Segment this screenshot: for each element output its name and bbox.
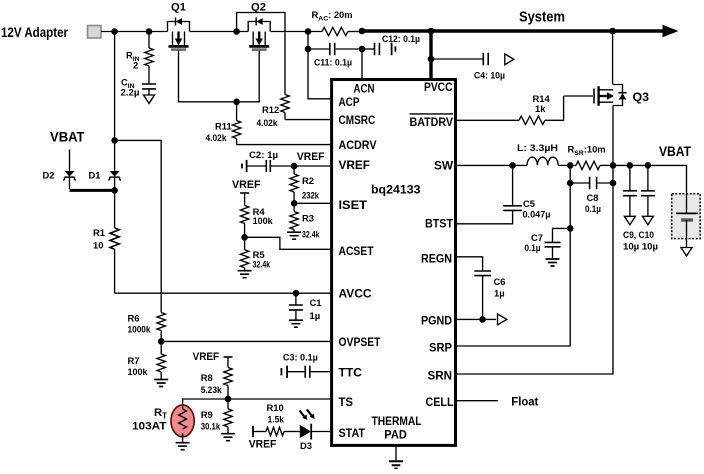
junction dot (293, 290, 300, 297)
junction dot (291, 200, 298, 207)
svg-text:THERMAL: THERMAL (372, 414, 422, 428)
resistor R11 (206, 102, 241, 145)
wire ACP pin (308, 49, 332, 99)
junction dot (627, 162, 634, 169)
svg-text:R11: R11 (215, 121, 232, 132)
svg-text:ACN: ACN (354, 82, 375, 96)
svg-text:C8: C8 (587, 192, 599, 203)
svg-text:CELL: CELL (426, 395, 454, 409)
wire C11 branch down (307, 32, 309, 50)
inductor L (517, 142, 576, 165)
diode D1 (89, 140, 122, 189)
junction dot (479, 316, 486, 323)
svg-text:OVPSET: OVPSET (339, 335, 381, 349)
svg-text:10µ 10µ: 10µ 10µ (623, 240, 658, 251)
node VREF terminal above R4 (232, 179, 261, 193)
ground under R9 (221, 434, 235, 441)
svg-text:2.2µ: 2.2µ (121, 87, 140, 98)
junction dot (305, 28, 312, 35)
svg-text:C2: 1µ: C2: 1µ (249, 149, 278, 160)
svg-text:L: 3.3µH: L: 3.3µH (517, 142, 558, 153)
node System off-page triangle (505, 54, 514, 65)
svg-text:C12: 0.1µ: C12: 0.1µ (382, 33, 420, 44)
svg-text:1µ: 1µ (494, 288, 505, 299)
ground open-triangle under C10 (642, 216, 653, 225)
svg-text:VREF: VREF (297, 151, 325, 163)
svg-text:R8: R8 (201, 372, 213, 383)
svg-text:Q3: Q3 (633, 90, 650, 104)
wire sense node down to SRP (457, 165, 570, 346)
svg-text:SRN: SRN (428, 369, 453, 383)
svg-text:0.1µ: 0.1µ (525, 242, 541, 253)
junction dot (233, 99, 240, 106)
resistor R1 (93, 190, 119, 293)
junction dot (609, 28, 616, 35)
wire PGND pin (457, 318, 496, 320)
wire AVCC rail (115, 292, 332, 294)
svg-text:Q2: Q2 (251, 2, 266, 14)
diode D2 (43, 170, 76, 190)
svg-text:C3: 0.1µ: C3: 0.1µ (283, 351, 318, 362)
wire Q1 gate to Q2 gate (179, 51, 260, 102)
wire battery node down to SRN (457, 165, 613, 374)
ground under R5 (238, 271, 252, 278)
wire ACSET path (245, 237, 332, 249)
resistor R9 (201, 399, 233, 433)
battery pack (672, 194, 700, 248)
resistor R14 (457, 93, 564, 125)
junction dot (509, 162, 516, 169)
svg-text:R10: R10 (267, 402, 284, 413)
svg-text:R3: R3 (302, 213, 314, 224)
capacitor C1 (289, 293, 322, 321)
wire VBAT node to R6 branch (115, 140, 162, 312)
junction dot (305, 46, 312, 53)
svg-text:SRP: SRP (429, 341, 452, 355)
svg-text:C11: 0.1µ: C11: 0.1µ (314, 57, 352, 68)
ground under RT (176, 443, 190, 450)
svg-text:5.23k: 5.23k (201, 384, 223, 395)
svg-text:D1: D1 (89, 170, 101, 181)
junction dot (111, 137, 118, 144)
svg-text:4.02k: 4.02k (257, 117, 279, 128)
resistor R10 (249, 402, 300, 450)
resistor RIN (126, 32, 153, 84)
wire adapter node down to VBAT node (114, 32, 116, 141)
wire ISET pin (294, 202, 332, 204)
svg-text:12V Adapter: 12V Adapter (1, 25, 68, 41)
capacitor CIN (121, 77, 157, 98)
ground under C1 (289, 320, 303, 327)
junction dot (111, 28, 118, 35)
svg-text:VREF: VREF (339, 158, 371, 172)
wire VREF pin (294, 165, 332, 167)
svg-text:R2: R2 (302, 175, 314, 186)
junction dot (567, 162, 574, 169)
resistor R4 (240, 193, 273, 237)
resistor R2 (290, 166, 320, 203)
junction dot (359, 28, 366, 35)
svg-text:PAD: PAD (384, 428, 407, 442)
ground open-triangle under C9 (624, 216, 635, 225)
svg-text:32.4k: 32.4k (302, 228, 320, 239)
ground open-triangle under CIN (144, 95, 155, 104)
svg-text:VREF: VREF (193, 351, 220, 363)
svg-text:R7: R7 (128, 355, 140, 366)
svg-text:VREF: VREF (232, 179, 261, 191)
svg-text:VBAT: VBAT (50, 130, 85, 146)
wire R12 to CMSRC pin (285, 119, 332, 121)
svg-text:REGN: REGN (421, 251, 452, 265)
resistor R3 (290, 203, 320, 239)
svg-text:1µ: 1µ (310, 310, 321, 321)
wire TS to thermistor (183, 399, 228, 405)
junction dot (233, 28, 240, 35)
terminal input pad (88, 26, 102, 39)
node System arrowhead (663, 25, 679, 37)
svg-text:0.1µ: 0.1µ (585, 203, 601, 214)
svg-text:ACDRV: ACDRV (339, 138, 378, 152)
ground under C7 (546, 259, 560, 266)
wire thick diode bus (70, 189, 117, 192)
ground open-triangle under battery (681, 248, 692, 257)
svg-text:C1: C1 (310, 297, 322, 308)
label THERMAL PAD (372, 414, 422, 441)
junction dot (645, 162, 652, 169)
svg-text:TTC: TTC (339, 366, 363, 380)
svg-text:103AT: 103AT (132, 420, 167, 432)
svg-text:R12: R12 (262, 104, 279, 115)
svg-text:BTST: BTST (425, 217, 453, 231)
thermistor RT (132, 405, 194, 442)
svg-text:10: 10 (93, 240, 103, 251)
capacitor C4 (431, 53, 505, 81)
capacitor C6 on REGN (457, 257, 505, 320)
wire VBAT rail to battery (613, 165, 687, 194)
transistor Q1 (168, 2, 190, 50)
ground under R7 (154, 380, 168, 387)
junction dot (428, 56, 435, 63)
svg-text:R9: R9 (201, 409, 213, 420)
capacitor C7 (525, 228, 571, 258)
svg-text:D2: D2 (43, 170, 55, 181)
svg-text:ACSET: ACSET (339, 244, 374, 258)
svg-text:4.02k: 4.02k (206, 132, 228, 143)
wire PVCC thick drop (429, 31, 432, 80)
wire Q2 to RAC (270, 31, 322, 33)
svg-text:VBAT: VBAT (659, 144, 691, 160)
svg-text:ISET: ISET (339, 198, 368, 212)
svg-text:1k: 1k (535, 103, 546, 114)
wire Q1 to Q2 (190, 31, 249, 33)
svg-text:Q1: Q1 (171, 2, 186, 14)
capacitor C9 (623, 165, 637, 216)
wire SW pin (457, 164, 527, 166)
op-amp U1 bq24133 IC body (332, 80, 456, 446)
junction dot (158, 338, 165, 345)
svg-text:100k: 100k (128, 366, 149, 377)
svg-text:ACP: ACP (339, 95, 360, 109)
svg-text:32.4k: 32.4k (253, 259, 271, 270)
svg-text:PVCC: PVCC (424, 80, 453, 94)
svg-text:0.047µ: 0.047µ (523, 208, 551, 219)
svg-text:bq24133: bq24133 (371, 183, 421, 197)
resistor R8 (201, 357, 233, 399)
svg-text:232k: 232k (302, 189, 320, 200)
svg-text:C4: 10µ: C4: 10µ (474, 70, 505, 81)
svg-text:2: 2 (133, 60, 138, 71)
resistor RAC (312, 9, 363, 36)
junction dot (111, 187, 118, 194)
svg-text:D3: D3 (300, 440, 312, 451)
wire System thick rail (362, 29, 664, 32)
ground PGND off-page triangle (498, 314, 507, 325)
wire CELL pin (457, 400, 498, 402)
ground thermal pad (389, 446, 403, 469)
wire R11 to ACDRV pin (237, 144, 332, 146)
junction dot (225, 396, 232, 403)
wire Q3 drain down to VBAT rail (612, 106, 614, 166)
capacitor C3 (281, 351, 332, 377)
pin BATDRV with overline (410, 114, 454, 129)
svg-text:CMSRC: CMSRC (339, 113, 376, 127)
svg-text:AVCC: AVCC (339, 286, 372, 300)
svg-text:STAT: STAT (339, 426, 366, 440)
resistor R12 (257, 95, 290, 128)
svg-text:Float: Float (511, 395, 538, 409)
junction dot (428, 28, 435, 35)
ground under R3 (287, 232, 301, 239)
wire ACN pin up (361, 49, 363, 80)
svg-text:1000k: 1000k (128, 324, 152, 335)
svg-text:VREF: VREF (249, 438, 277, 450)
wire VBAT label lead (69, 150, 71, 172)
resistor R7 (128, 341, 166, 379)
transistor Q2 (248, 2, 270, 50)
wire main input rail (101, 31, 168, 33)
resistor RSR (568, 144, 614, 170)
svg-text:R6: R6 (128, 313, 140, 324)
junction dot (146, 28, 153, 35)
svg-text:PGND: PGND (421, 314, 452, 328)
svg-text:SW: SW (434, 159, 453, 173)
junction dot (567, 225, 574, 232)
svg-text:100k: 100k (253, 215, 274, 226)
junction dot (567, 180, 574, 187)
resistor R5 (240, 237, 270, 270)
svg-text:TS: TS (339, 395, 354, 409)
label C9 C10 values (623, 229, 658, 251)
junction dot (610, 180, 617, 187)
junction dot (241, 234, 248, 241)
wire TS pin (228, 398, 332, 400)
resistor R6 (128, 313, 166, 342)
junction dot (610, 162, 617, 169)
capacitor C11 (308, 43, 362, 68)
capacitor C2 (242, 149, 294, 172)
svg-text:R1: R1 (93, 227, 105, 238)
svg-text:C6: C6 (494, 276, 506, 287)
junction dot (291, 163, 298, 170)
wire OVPSET (161, 340, 332, 342)
svg-text:C9, C10: C9, C10 (623, 229, 654, 240)
LED D3 (300, 410, 333, 451)
capacitor C5 (457, 165, 551, 223)
wire over Q2 to R12 (237, 13, 285, 95)
junction dot (359, 46, 366, 53)
svg-text:1.5k: 1.5k (268, 414, 285, 425)
svg-text:30.1k: 30.1k (201, 420, 221, 431)
wire rail down to Q3 (612, 31, 614, 85)
node VREF terminal above R8 (193, 351, 233, 363)
capacitor C10 (641, 165, 655, 216)
transistor Q3 (564, 85, 650, 106)
capacitor C12 (362, 33, 420, 55)
svg-text:System: System (519, 9, 565, 26)
capacitor C8 (570, 177, 613, 214)
svg-text:BATDRV: BATDRV (410, 115, 454, 129)
